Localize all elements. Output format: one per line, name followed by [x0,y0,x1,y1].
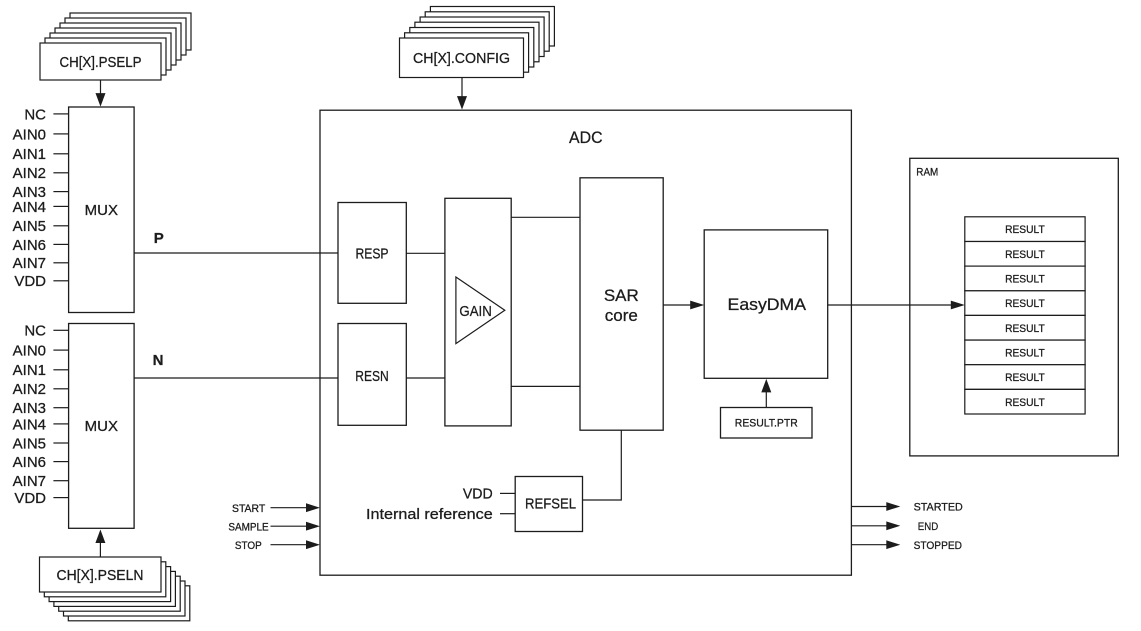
svg-text:AIN6: AIN6 [13,237,46,254]
wire EasyDMA to RAM [828,304,952,306]
RAM row RESULT 5 [965,340,1085,365]
MUX1 pin AIN2 [13,165,69,182]
arrowhead into MUX2 bottom [95,530,105,544]
wire P: MUX1 to RESP [134,252,338,254]
wire GAIN to SAR bottom [511,385,580,387]
svg-text:AIN7: AIN7 [13,473,46,490]
tick Internal reference to REFSEL [500,513,515,515]
tick VDD to REFSEL [500,492,515,494]
svg-text:RESULT: RESULT [1005,323,1045,335]
svg-text:AIN0: AIN0 [13,126,46,143]
svg-text:RESN: RESN [355,368,389,385]
MUX1 pin AIN7 [13,255,69,272]
svg-text:AIN4: AIN4 [13,199,46,216]
MUX1 pin VDD [14,273,68,290]
svg-text:core: core [605,306,638,325]
wire CONFIG to ADC [461,78,463,97]
svg-text:ADC: ADC [569,128,603,147]
MUX1 pin AIN1 [13,146,69,163]
svg-text:AIN2: AIN2 [13,165,46,182]
svg-text:EasyDMA: EasyDMA [728,295,807,314]
svg-text:SAR: SAR [604,286,639,305]
gain amplifier triangle [456,277,505,344]
MUX2 pin AIN0 [13,343,69,360]
MUX2 pin NC [24,323,68,340]
MUX2 pin AIN2 [13,381,69,398]
svg-text:RESULT.PTR: RESULT.PTR [735,417,798,429]
mux MUX1 [69,107,135,313]
svg-text:Internal reference: Internal reference [366,506,493,523]
svg-text:STOP: STOP [235,540,262,552]
MUX2 pin VDD [14,490,68,507]
event output STARTED [851,502,962,514]
MUX2 pin AIN7 [13,473,69,490]
svg-text:STARTED: STARTED [914,502,963,514]
svg-text:P: P [154,230,164,247]
svg-text:STOPPED: STOPPED [914,540,962,552]
arrowhead into EasyDMA [690,301,704,310]
svg-text:VDD: VDD [463,486,493,503]
svg-text:AIN0: AIN0 [13,343,46,360]
svg-text:RESULT: RESULT [1005,372,1045,384]
RAM row RESULT 6 [965,365,1085,390]
svg-text:N: N [153,352,164,369]
svg-text:VDD: VDD [14,273,46,290]
MUX2 pin AIN3 [13,400,69,417]
RAM row RESULT 2 [965,266,1085,291]
svg-text:NC: NC [24,106,46,123]
svg-text:END: END [918,521,938,533]
block EasyDMA [704,230,828,378]
task input START [232,503,320,515]
ADC block outline [320,110,851,575]
svg-text:AIN4: AIN4 [13,416,46,433]
svg-text:SAMPLE: SAMPLE [228,521,268,533]
block RESP [338,203,406,304]
svg-text:RESULT: RESULT [1005,274,1045,286]
task input SAMPLE [228,521,320,533]
MUX1 pin AIN0 [13,126,69,143]
wire PSELN to MUX2 [99,543,101,558]
svg-text:AIN2: AIN2 [13,381,46,398]
svg-text:MUX: MUX [85,418,118,435]
wire SAR to EasyDMA [663,304,691,306]
svg-text:AIN1: AIN1 [13,146,46,163]
wire REFSEL to SAR core [583,499,622,501]
svg-text:RESULT: RESULT [1005,224,1045,236]
RAM row RESULT 4 [965,315,1085,340]
MUX1 pin AIN5 [13,218,69,235]
wire PSELP to MUX1 [100,80,102,95]
svg-text:VDD: VDD [14,490,46,507]
arrowhead into EasyDMA bottom [761,379,771,393]
wire RESN to GAIN [406,377,445,379]
RAM row RESULT 7 [965,389,1085,414]
wire GAIN to SAR top [511,216,580,218]
svg-text:RESP: RESP [356,246,389,263]
MUX2 pin AIN4 [13,416,69,433]
svg-text:REFSEL: REFSEL [525,497,576,513]
svg-text:RESULT: RESULT [1005,298,1045,310]
register stack CH[X].PSELP [40,13,191,80]
MUX1 pin AIN3 [13,184,69,201]
event output END [851,521,938,533]
MUX1 pin NC [24,106,68,123]
RAM row RESULT 3 [965,291,1085,316]
svg-text:AIN3: AIN3 [13,400,46,417]
MUX2 pin AIN1 [13,362,69,379]
svg-text:RAM: RAM [916,167,938,179]
svg-text:AIN6: AIN6 [13,454,46,471]
gain stage rectangle [445,198,511,426]
RAM row RESULT 1 [965,242,1085,267]
wire N: MUX2 to RESN [134,377,338,379]
register stack CH[X].CONFIG [400,7,555,78]
svg-text:CH[X].CONFIG: CH[X].CONFIG [413,50,510,67]
svg-text:MUX: MUX [85,202,118,219]
svg-text:CH[X].PSELN: CH[X].PSELN [57,567,144,584]
register stack CH[X].PSELN [40,557,190,621]
svg-text:CH[X].PSELP: CH[X].PSELP [60,54,142,71]
arrowhead into RESULT buffer [951,301,965,310]
event output STOPPED [851,540,962,552]
task input STOP [235,540,320,552]
block RESULT.PTR [721,408,813,439]
svg-text:NC: NC [24,323,46,340]
svg-text:GAIN: GAIN [459,303,491,320]
mux MUX2 [69,324,135,529]
MUX1 pin AIN6 [13,237,69,254]
arrowhead into MUX1 top [96,93,106,107]
svg-text:AIN5: AIN5 [13,435,46,452]
wire RESP to GAIN [406,252,445,254]
svg-text:AIN5: AIN5 [13,218,46,235]
block SAR core [580,178,663,430]
RAM block [910,158,1119,456]
svg-text:AIN1: AIN1 [13,362,46,379]
wire RESULT.PTR to EasyDMA [765,391,767,408]
block REFSEL [515,477,582,532]
svg-text:RESULT: RESULT [1005,249,1045,261]
RAM row RESULT 0 [965,217,1085,242]
arrowhead into ADC top [457,96,467,110]
MUX2 pin AIN6 [13,454,69,471]
svg-text:RESULT: RESULT [1005,348,1045,360]
svg-text:RESULT: RESULT [1005,397,1045,409]
MUX1 pin AIN4 [13,199,69,216]
svg-text:AIN7: AIN7 [13,255,46,272]
MUX2 pin AIN5 [13,435,69,452]
block RESN [338,324,406,426]
svg-text:START: START [232,503,265,515]
